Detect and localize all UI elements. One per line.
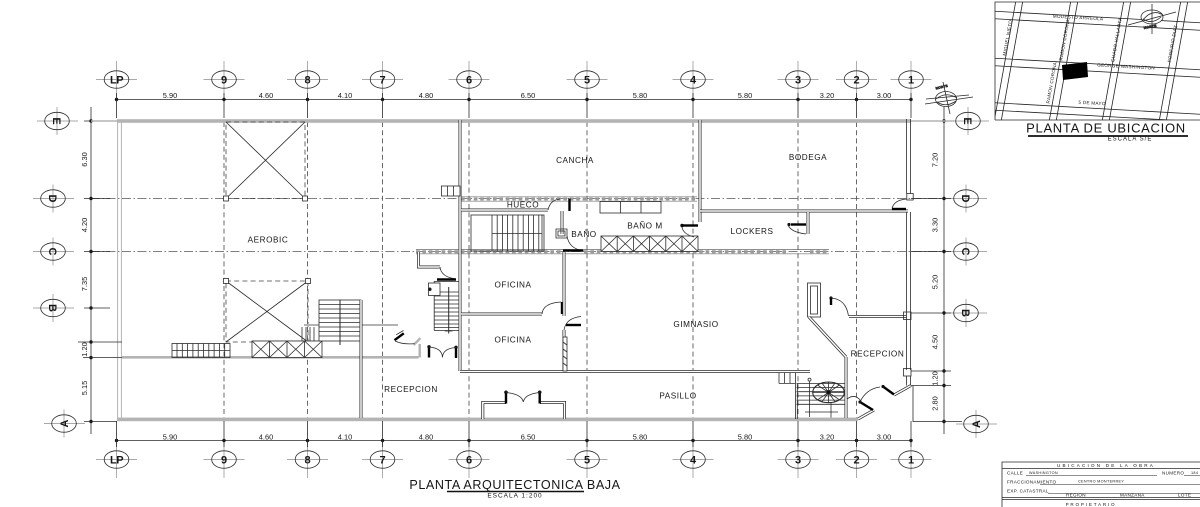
bottom extension lines (117, 421, 912, 447)
left dimension chain line (90, 107, 92, 434)
svg-text:AEROBIC: AEROBIC (248, 236, 289, 245)
svg-text:5.20: 5.20 (931, 275, 940, 289)
svg-text:6.30: 6.30 (80, 152, 89, 166)
vertical dashed grid 8 (307, 122, 309, 418)
svg-text:EXP. CATASTRAL: EXP. CATASTRAL (1007, 489, 1049, 494)
BANO M door arc and dot (680, 224, 698, 237)
right grid bubble E (948, 107, 989, 135)
svg-text:PROPIETARIO: PROPIETARIO (1066, 502, 1117, 507)
bottom grid bubble 9 (204, 441, 245, 478)
svg-text:LP: LP (110, 75, 123, 87)
LOCKERS north wall y=208 (700, 210, 908, 213)
svg-text:D: D (959, 195, 971, 203)
aerobic X brace lower corner plates (224, 279, 311, 284)
svg-text:1: 1 (908, 75, 914, 87)
svg-text:3.00: 3.00 (877, 91, 891, 100)
wall junction node D (907, 194, 913, 201)
folding door symbol (396, 331, 404, 335)
bottom dimension tick dots (115, 439, 913, 442)
svg-text:3.30: 3.30 (931, 218, 940, 232)
svg-text:2.80: 2.80 (931, 396, 940, 410)
small risers right of gap (779, 372, 796, 383)
svg-text:A: A (971, 420, 983, 428)
top grid bubble 9 (204, 61, 245, 98)
svg-text:HUECO: HUECO (507, 201, 539, 210)
svg-text:3: 3 (795, 75, 801, 87)
bottom grid bubble 3 (778, 441, 819, 478)
top grid bubble 3 (778, 61, 819, 98)
svg-text:4: 4 (690, 75, 697, 87)
chimney shaft column (808, 283, 821, 317)
svg-text:1: 1 (908, 455, 914, 467)
grid line A right L extension (913, 386, 962, 422)
wall y=341.5 stub left (252, 341, 322, 343)
svg-text:ESCALA S/E: ESCALA S/E (1108, 137, 1153, 143)
interior wall x=460 AEROBIC/CANCHA divider (459, 120, 462, 371)
svg-text:PLANTA DE UBICACION: PLANTA DE UBICACION (1026, 121, 1186, 136)
svg-text:OFICINA: OFICINA (494, 281, 531, 290)
svg-text:3.20: 3.20 (820, 91, 834, 100)
stair run up treads (319, 300, 361, 345)
field FRACCIONAMIENTO (1007, 480, 1200, 485)
svg-text:4.10: 4.10 (338, 432, 352, 441)
street george washington (990, 58, 1200, 78)
stairwell stairs risers (471, 215, 544, 251)
top dimension chain line (117, 99, 912, 101)
svg-text:2: 2 (853, 75, 859, 87)
BANO door leaf (563, 249, 583, 251)
svg-text:7: 7 (379, 455, 385, 467)
top grid bubble 1 (891, 61, 932, 98)
right dimension values (rotated) (931, 153, 940, 411)
top extension lines bubble to wall (117, 93, 912, 118)
bottom outer wall (thick) (117, 418, 858, 422)
svg-text:2: 2 (853, 455, 859, 467)
svg-text:A: A (59, 419, 71, 427)
svg-text:184: 184 (1191, 471, 1198, 475)
right grid bubble C (946, 238, 987, 266)
svg-text:BAÑO: BAÑO (571, 229, 596, 239)
vertical dashed grid 2 (856, 122, 858, 418)
svg-text:6: 6 (466, 75, 472, 87)
svg-text:9: 9 (221, 75, 227, 87)
BANO M bench with X bracing (601, 236, 698, 252)
vertical dashed grid 7 (382, 122, 384, 418)
GIMNASIO south wall y=371 (460, 370, 810, 373)
svg-text:6: 6 (466, 455, 472, 467)
top grid bubble 7 (362, 61, 403, 98)
top grid bubble 2 (836, 61, 877, 98)
vertical dashed grid 5 (586, 122, 588, 418)
street ramon corona (1049, 0, 1078, 122)
left dimension values (rotated) (80, 152, 89, 395)
interior wall x=564 OFICINA/GIMNASIO divider (563, 252, 566, 371)
grid line E left stub (91, 120, 117, 122)
bottom dimension chain line (117, 440, 912, 442)
left grid bubble E (37, 107, 78, 135)
recepcion divider wall x=846 (845, 357, 848, 418)
svg-text:OFICINA: OFICINA (494, 336, 531, 345)
right dimension chain line (943, 107, 945, 434)
svg-text:6.50: 6.50 (521, 432, 535, 441)
straight stair flight in pasillo (795, 378, 845, 419)
svg-text:1.20: 1.20 (80, 342, 89, 356)
field EXP CATASTRAL (1007, 489, 1200, 494)
bottom grid bubble 7 (362, 441, 403, 478)
corner entrance diagonal wall lower (858, 410, 874, 419)
main entrance double doors (504, 391, 541, 404)
railing verticals left of stair (302, 327, 314, 341)
svg-text:RECEPCION: RECEPCION (851, 350, 905, 359)
corner staircase treads (434, 282, 459, 334)
long wall y=357.5 left block (122, 356, 419, 359)
top grid bubble 5 (567, 61, 608, 98)
folding door arc (395, 341, 415, 344)
wall y=325 stub (304, 324, 398, 326)
HUECO south wall (461, 209, 548, 212)
svg-text:B: B (959, 309, 971, 317)
svg-text:5.80: 5.80 (633, 91, 647, 100)
corner entrance arcs (847, 387, 880, 402)
left grid bubble A (44, 410, 85, 438)
horizontal dash-dot grid D (91, 198, 944, 200)
entrance jamb hatch x=564 (563, 337, 567, 371)
svg-text:9: 9 (221, 455, 227, 467)
lot parcel (filled) (1062, 62, 1088, 80)
right grid bubble B (946, 299, 987, 327)
street vallarta (1102, 0, 1131, 122)
map north arrow (1128, 4, 1176, 34)
reception closet below C (419, 252, 441, 267)
svg-text:CANCHA: CANCHA (556, 156, 594, 165)
LOCKERS door jamb stub (807, 212, 810, 234)
svg-text:B: B (46, 304, 58, 312)
title block outer box (1002, 462, 1200, 507)
door arc in right wall at grid D (892, 199, 907, 209)
HUECO door arc (548, 199, 560, 210)
svg-text:7.20: 7.20 (931, 153, 940, 167)
svg-text:C: C (959, 248, 971, 256)
svg-text:3.20: 3.20 (820, 432, 834, 441)
gray wall jog at fold door (414, 338, 421, 357)
svg-text:C: C (46, 248, 58, 256)
svg-text:4.80: 4.80 (419, 432, 433, 441)
vertical dashed grid 4 (692, 122, 694, 418)
svg-text:GIMNASIO: GIMNASIO (673, 320, 718, 329)
left grid bubble D (33, 185, 74, 213)
map title underline (1028, 135, 1188, 137)
stair side wall x=361 (360, 300, 363, 418)
bottom grid bubble 5 (567, 441, 608, 478)
svg-text:4.20: 4.20 (80, 218, 89, 232)
wall hatch band along grid C (416, 250, 829, 254)
OFICINA divider door arc (542, 302, 562, 314)
HUECO door leaf (568, 199, 570, 212)
top grid bubble 6 (449, 61, 490, 98)
corner entrance diagonal wall upper (894, 386, 911, 396)
svg-text:UBICACION DE LA OBRA: UBICACION DE LA OBRA (1057, 463, 1155, 468)
BANO sink (556, 229, 567, 238)
bottom grid bubble 8 (287, 441, 328, 478)
top dimension tick dots (115, 98, 913, 101)
field NUMERO (1162, 471, 1200, 476)
right extension stubs (911, 199, 951, 386)
svg-text:LP: LP (110, 455, 123, 467)
BANO room left wall (561, 211, 564, 234)
bottom grid bubble 4 (673, 441, 714, 478)
svg-text:RECEPCION: RECEPCION (384, 385, 438, 394)
svg-text:5.80: 5.80 (738, 432, 752, 441)
top grid bubble 8 (287, 61, 328, 98)
wall hatch band along grid D (CANCHA south wall) (461, 197, 697, 201)
top outer wall (thick) (117, 119, 911, 123)
horizontal dash-dot grid C (91, 251, 944, 253)
bottom grid bubble 1 (891, 441, 932, 478)
street porfirio diaz (1159, 0, 1188, 122)
svg-text:7: 7 (379, 75, 385, 87)
vertical dashed grid 3 (797, 122, 799, 418)
svg-text:LOTE: LOTE (1178, 493, 1191, 498)
aerobic X brace lower dashed frame (226, 281, 308, 342)
diagonal wall recepcion (809, 317, 846, 357)
bottom grid bubble LP (96, 441, 137, 478)
svg-text:4.10: 4.10 (338, 91, 352, 100)
top grid bubble LP (96, 61, 137, 98)
left extension stubs (78, 121, 122, 422)
svg-text:LOCKERS: LOCKERS (731, 227, 774, 236)
svg-text:E: E (961, 117, 973, 124)
bottom grid bubble 6 (449, 441, 490, 478)
svg-text:PLANTA ARQUITECTONICA BAJA: PLANTA ARQUITECTONICA BAJA (409, 478, 620, 492)
drawing title underline (447, 491, 584, 493)
svg-text:5.90: 5.90 (163, 91, 177, 100)
street miguel nieto (994, 0, 1023, 122)
aerobic X brace lower diagonals (226, 281, 308, 342)
svg-text:5.15: 5.15 (80, 381, 89, 395)
gimnasio door arc at chimney (829, 296, 848, 316)
wall junction node lower (904, 369, 912, 377)
svg-text:5: 5 (584, 455, 590, 467)
svg-text:8: 8 (304, 75, 310, 87)
svg-text:4.80: 4.80 (419, 91, 433, 100)
svg-text:8: 8 (304, 455, 310, 467)
BANO door arc (567, 236, 584, 251)
top grid bubble 4 (673, 61, 714, 98)
svg-text:FRACCIONAMIENTO: FRACCIONAMIENTO (1007, 480, 1056, 485)
svg-text:4.60: 4.60 (259, 432, 273, 441)
CANCHA corner closet (442, 186, 461, 196)
left grid bubble C (33, 238, 74, 266)
right outer wall (double) (907, 119, 911, 370)
top dimension values (163, 91, 891, 100)
aerobic X brace upper corner plates (224, 196, 308, 201)
corner entrance leaf upper (881, 385, 894, 395)
street modesto arreola (990, 11, 1200, 31)
svg-text:7.35: 7.35 (80, 277, 89, 291)
interior wall x=700 CANCHA/BODEGA divider (699, 120, 702, 222)
field CALLE (1007, 471, 1157, 476)
wall junction node B (904, 312, 912, 320)
street 5 de mayo (990, 103, 1200, 123)
svg-text:CENTRO MONTERREY: CENTRO MONTERREY (1078, 480, 1124, 484)
location map border (995, 2, 1200, 120)
corner stair side box (428, 283, 440, 296)
double door to oficina corridor (427, 345, 457, 358)
BANO M stall row (600, 202, 661, 214)
svg-text:CALLE: CALLE (1007, 471, 1023, 476)
bottom dimension values (163, 432, 891, 441)
svg-text:5: 5 (584, 75, 590, 87)
grid line E right stub to bubble (911, 120, 954, 122)
svg-text:BAÑO M: BAÑO M (627, 221, 663, 231)
svg-text:ESCALA 1:200: ESCALA 1:200 (487, 493, 542, 500)
north compass near plan (925, 82, 973, 114)
main entrance vestibule walls (483, 403, 565, 420)
recepcion north wall y=316.5 (849, 315, 906, 318)
svg-text:4: 4 (690, 455, 697, 467)
svg-text:MANZANA: MANZANA (1120, 493, 1145, 498)
svg-text:3.00: 3.00 (877, 432, 891, 441)
vertical dashed grid 6 (468, 122, 470, 418)
svg-text:REGION: REGION (1066, 493, 1086, 498)
svg-text:1.20: 1.20 (931, 371, 940, 385)
left outer wall (double) (118, 120, 122, 419)
vertical dashed grid 9 (223, 122, 225, 418)
svg-text:3: 3 (795, 455, 801, 467)
right wall segment between nodes (907, 376, 911, 386)
svg-text:PASILLO: PASILLO (659, 392, 696, 401)
left dimension tick dots (89, 119, 92, 423)
OFICINA divider wall y=314 (461, 313, 542, 316)
right dimension tick dots (942, 119, 945, 423)
svg-text:5.80: 5.80 (633, 432, 647, 441)
left grid bubble B (33, 294, 74, 322)
aerobic X brace upper dashed frame (226, 122, 305, 199)
corner entrance leaf lower (858, 400, 873, 410)
aerobic X brace upper diagonals (226, 122, 305, 199)
LOCKERS door arc and leaf (787, 223, 806, 234)
svg-text:4.50: 4.50 (931, 335, 940, 349)
X box bench left (252, 341, 322, 358)
svg-text:5.80: 5.80 (738, 91, 752, 100)
bottom grid bubble 2 (836, 441, 877, 478)
svg-text:WASHINGTON: WASHINGTON (1029, 471, 1058, 475)
svg-text:5.90: 5.90 (163, 432, 177, 441)
reception closet door arc (440, 267, 456, 279)
reception desk leaf (437, 278, 456, 280)
stair run lower-left risers (172, 344, 230, 358)
svg-text:6.50: 6.50 (521, 91, 535, 100)
right grid bubble D (946, 185, 987, 213)
spiral stair (813, 382, 845, 403)
svg-text:BODEGA: BODEGA (789, 153, 827, 162)
svg-text:D: D (46, 195, 58, 203)
svg-text:4.60: 4.60 (259, 91, 273, 100)
right grid bubble A (956, 410, 997, 438)
sub labels region manzana lote (1066, 493, 1191, 498)
OFICINA2 door arc (564, 317, 581, 331)
svg-text:NUMERO: NUMERO (1162, 471, 1184, 476)
svg-text:E: E (50, 117, 62, 124)
